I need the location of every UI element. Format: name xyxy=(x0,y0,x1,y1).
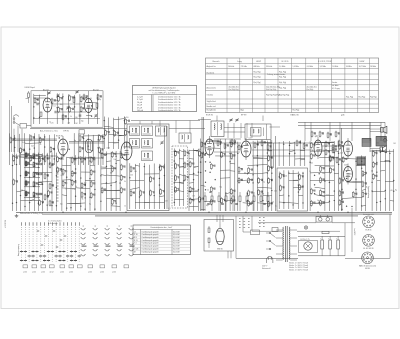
wire horizontal ifamp h6 xyxy=(220,169,230,171)
wire horizontal preamp h3 xyxy=(310,150,325,152)
wire vertical fbrails v5 xyxy=(393,149,395,211)
wire horizontal preamp h14 xyxy=(310,202,325,204)
svg-text:F(a) F(g) F(g): F(a) F(g) F(g) xyxy=(229,89,240,91)
wire horizontal midleft h1 xyxy=(76,157,95,159)
resistor-capacitor group preamp c11 xyxy=(310,201,312,205)
resistor-capacitor group output c3 xyxy=(352,192,354,196)
resistor-capacitor group preamp c2 xyxy=(310,154,312,158)
resistor-capacitor group gap6x50 c1 xyxy=(105,131,107,135)
capacitor C17 xyxy=(62,115,64,119)
junction det d14 xyxy=(247,193,248,194)
junction ifamp d4 xyxy=(205,153,206,154)
svg-text:UKW-Empfangsteil-Spulen: UKW-Empfangsteil-Spulen xyxy=(152,87,176,90)
svg-text:a1 b2: a1 b2 xyxy=(69,272,73,274)
wire mains top xyxy=(258,222,316,224)
wire psu drop left xyxy=(251,216,253,231)
junction switchbank d9 xyxy=(29,177,30,178)
junction fmbox d0 xyxy=(62,96,63,97)
wire horizontal det h12 xyxy=(257,203,271,204)
svg-text:3,10 DM: 3,10 DM xyxy=(173,251,180,253)
wire vertical tone v5 xyxy=(302,172,304,209)
wire horizontal centre h4 xyxy=(101,167,116,170)
wire main row rail a xyxy=(214,138,241,140)
svg-text:0,1: 0,1 xyxy=(275,206,277,208)
svg-text:a1 b2: a1 b2 xyxy=(41,272,45,274)
wire horizontal tunerlow h7 xyxy=(144,202,164,204)
coil L1 bank xyxy=(25,153,27,157)
wire horizontal preamp h8 xyxy=(310,171,329,174)
junction centre d7 xyxy=(111,172,112,173)
wire vertical amrow v15 xyxy=(83,134,85,165)
svg-text:0,05: 0,05 xyxy=(198,202,201,204)
svg-text:2k: 2k xyxy=(207,189,209,191)
junction tunerlow d4 xyxy=(164,175,165,176)
resistor-capacitor group ifgap c1 xyxy=(189,162,191,166)
wire horizontal ifamp h2 xyxy=(206,147,221,149)
capacitor C5 xyxy=(54,111,56,114)
junction gap6x50 d0 xyxy=(104,120,105,121)
resistor-capacitor group det c3 xyxy=(248,168,250,172)
junction preamp d5 xyxy=(338,164,339,165)
wire vertical tone v4 xyxy=(297,172,299,209)
wire vertical amrow v7 xyxy=(44,134,46,165)
wire horizontal tunerlow h1 xyxy=(159,166,164,167)
junction ifcan d2 xyxy=(183,163,184,164)
wire horizontal ifamp h7 xyxy=(220,177,230,179)
wire horizontal output h8 xyxy=(342,197,362,198)
wire vertical centre v4 xyxy=(119,151,121,211)
capacitor Ct 328 xyxy=(327,133,329,137)
wire vertical tunerlow v2 xyxy=(139,163,141,209)
wire horizontal ifamp h9 xyxy=(225,193,230,194)
wire horizontal preamp h4 xyxy=(319,156,338,159)
wire horizontal switchbank h1 xyxy=(25,163,30,165)
wire horizontal tone h1 xyxy=(289,179,299,181)
resistor-capacitor group amrow c0 xyxy=(10,138,12,142)
panel divider mid xyxy=(275,136,277,211)
wire horizontal det h5 xyxy=(253,157,263,159)
resistor-capacitor group tone c1 xyxy=(299,175,301,179)
pilot lamp xyxy=(304,226,307,229)
wire vertical amrow v6 xyxy=(38,134,40,165)
tuning cap C20 xyxy=(161,141,164,143)
junction preamp d11 xyxy=(314,193,315,194)
wire vertical ifcan v1 xyxy=(178,149,180,206)
wire vertical switchbank v5 xyxy=(33,153,35,211)
junction tone d4 xyxy=(302,173,303,174)
svg-text:F(a), F(g): F(a), F(g) xyxy=(346,97,354,99)
wire horizontal ifgap h5 xyxy=(189,173,198,176)
junction toneup d3 xyxy=(289,153,290,154)
junction ifamp d11 xyxy=(205,170,206,171)
svg-text:F(a) F(g): F(a) F(g) xyxy=(359,97,366,99)
svg-text:Ortsliste: Ortsliste xyxy=(207,93,214,96)
wire horizontal midleft h12 xyxy=(67,202,86,205)
wire horizontal fbrails h8 xyxy=(390,200,394,203)
wire horizontal centre h11 xyxy=(111,205,120,208)
junction fbrails d6 xyxy=(376,172,377,173)
wire horizontal output h1 xyxy=(356,158,366,160)
wire top bus right 2 xyxy=(298,124,381,126)
wire horizontal fbrails h6 xyxy=(385,180,393,182)
resistor-capacitor group preamp c6 xyxy=(320,178,322,182)
junction centre d4 xyxy=(111,165,112,166)
wire horizontal centre h8 xyxy=(106,190,120,192)
wire horizontal tunerlow h0 xyxy=(135,165,139,166)
junction preamp d14 xyxy=(329,201,330,202)
junction det d3 xyxy=(237,153,238,154)
junction fbrails d9 xyxy=(372,191,373,192)
wire horizontal fmbox h2 xyxy=(86,108,97,110)
svg-text:220 V~: 220 V~ xyxy=(262,266,268,268)
junction amrow d3 xyxy=(83,138,84,139)
chassis bus line 2 xyxy=(42,213,392,215)
junction det d15 xyxy=(262,193,263,194)
wire cap leads xyxy=(321,236,323,240)
svg-text:70p: 70p xyxy=(219,186,222,188)
junction det d11 xyxy=(237,180,238,181)
svg-text:4,7 µH: 4,7 µH xyxy=(137,99,143,101)
junction ifamp d14 xyxy=(215,179,216,180)
switch wafer column 2 xyxy=(93,229,97,231)
svg-text:25: 25 xyxy=(83,108,85,110)
resistor R1 antenna xyxy=(28,93,30,97)
svg-text:Drehbereichsfaktor 1:21 / 3k: Drehbereichsfaktor 1:21 / 3k xyxy=(158,109,181,112)
wire vertical tunerlow v7 xyxy=(163,164,165,209)
resistor-capacitor group fmbox c6 xyxy=(80,107,82,111)
junction fmbox d12 xyxy=(91,116,92,117)
wire vertical midleft v6 xyxy=(89,156,91,211)
trimmer C2 xyxy=(57,94,60,96)
alignment table column lines xyxy=(226,58,228,113)
svg-text:50k: 50k xyxy=(285,176,288,178)
svg-text:F(a), F(g): F(a), F(g) xyxy=(279,71,287,73)
wire horizontal ifamp h3 xyxy=(215,155,235,157)
junction tone d9 xyxy=(293,204,294,205)
wire vertical switchbank v8 xyxy=(46,153,48,211)
svg-text:0,1: 0,1 xyxy=(54,106,56,108)
svg-text:F(a), F(g): F(a), F(g) xyxy=(254,71,262,73)
wire horizontal midleft h5 xyxy=(71,172,76,174)
junction fbrails d2 xyxy=(376,162,377,163)
junction preamp d0 xyxy=(314,143,315,144)
wire vertical switchbank v3 xyxy=(24,153,26,211)
wire horizontal preamp h15 xyxy=(315,202,330,205)
junction midleft d12 xyxy=(75,196,76,197)
junction centre d13 xyxy=(116,203,117,204)
junction tunerlow d2 xyxy=(129,177,130,178)
wire horizontal tunerlow h5 xyxy=(159,195,164,198)
junction amrow d20 xyxy=(63,155,64,156)
wire vertical switchbank v2 xyxy=(20,152,22,211)
resistor-capacitor group det c5 xyxy=(238,178,240,182)
wire horizontal tone h6 xyxy=(279,202,298,203)
svg-text:LKUP: LKUP xyxy=(256,61,262,63)
resistor-capacitor group det c4 xyxy=(268,166,270,170)
resistor-capacitor group switchbank c4 xyxy=(57,168,59,172)
resistor-capacitor group fmbox c2 xyxy=(69,96,71,100)
wire horizontal ifcan h8 xyxy=(174,190,183,191)
junction det d6 xyxy=(257,165,258,166)
junction fmbox d5 xyxy=(57,107,58,108)
filter capacitor C52 xyxy=(337,240,340,249)
left bank extra parts xyxy=(44,157,46,161)
junction tunerlow d7 xyxy=(154,195,155,196)
resistor-capacitor group ifamp c7 xyxy=(230,189,232,193)
wire horizontal midleft h9 xyxy=(76,188,90,189)
junction output d5 xyxy=(346,178,347,179)
wire vertical switchbank v1 xyxy=(16,154,18,211)
junction switchbank d17 xyxy=(12,203,13,204)
wire horizontal preamp h2 xyxy=(319,150,338,152)
svg-text:UKW-Dipol: UKW-Dipol xyxy=(25,87,36,89)
junction fmbox d1 xyxy=(74,97,75,98)
svg-text:K U R Z, TROP: K U R Z, TROP xyxy=(318,61,332,63)
junction centre d3 xyxy=(106,166,107,167)
junction fmbox d11 xyxy=(68,118,69,119)
junction fmbox d4 xyxy=(33,106,34,107)
wire vertical gap6x50 v1 xyxy=(108,117,110,149)
junction amrow d16 xyxy=(38,158,39,159)
svg-text:50k: 50k xyxy=(244,172,247,174)
IF transformer T4 frame xyxy=(245,124,271,140)
resistor-capacitor group midleft c2 xyxy=(90,158,92,162)
wire psu drop right outer xyxy=(389,214,391,258)
svg-text:Ersatzteilpreise der „Lord“: Ersatzteilpreise der „Lord“ xyxy=(151,226,173,229)
svg-text:530 kHz: 530 kHz xyxy=(266,66,272,68)
junction tone d5 xyxy=(298,184,299,185)
wire horizontal tunerlow h4 xyxy=(130,188,140,190)
wire vertical ifamp v6 xyxy=(229,140,231,211)
wire horizontal fbrails h1 xyxy=(380,150,393,153)
wire horizontal ifgap h6 xyxy=(189,182,194,185)
dashed IF can xyxy=(172,146,188,208)
svg-text:0,05: 0,05 xyxy=(326,194,329,196)
wire horizontal switchbank h7 xyxy=(30,199,35,200)
wire horizontal toneup h1 xyxy=(300,150,305,152)
wire vertical centre v3 xyxy=(115,151,117,211)
wire main row double a xyxy=(12,139,57,141)
junction switchbank d3 xyxy=(51,155,52,156)
coil pack box 2 xyxy=(142,126,153,136)
junction midleft d14 xyxy=(89,197,90,198)
svg-text:Netzanschl.: Netzanschl. xyxy=(262,267,271,270)
wire horizontal midleft h4 xyxy=(81,171,90,173)
wire main row double b xyxy=(69,141,104,143)
svg-text:0,05: 0,05 xyxy=(22,142,25,144)
resistor R8 xyxy=(96,103,98,107)
wire horizontal tone h2 xyxy=(293,180,298,182)
wire main row clusters mid xyxy=(217,141,219,145)
wire horizontal preamp h11 xyxy=(315,187,325,188)
junction centre d11 xyxy=(120,183,121,184)
junction preamp d9 xyxy=(324,181,325,182)
wire horizontal centre h0 xyxy=(101,153,120,155)
junction preamp d15 xyxy=(334,200,335,201)
junction ifamp d8 xyxy=(210,162,211,163)
wire vertical switchbank v4 xyxy=(29,153,31,211)
junction ifamp d6 xyxy=(200,162,201,163)
wire vertical det v4 xyxy=(256,140,258,211)
svg-text:0,25: 0,25 xyxy=(51,123,54,125)
wire vertical gap6x50 v0 xyxy=(103,117,105,149)
wire horizontal midleft h6 xyxy=(85,179,95,181)
svg-text:F(a) F(g) F(g): F(a) F(g) F(g) xyxy=(266,89,277,91)
junction preamp d12 xyxy=(334,191,335,192)
wire horizontal toneup h0 xyxy=(290,142,295,145)
wire horizontal fmbox h0 xyxy=(34,94,46,96)
wire horizontal tone h3 xyxy=(293,186,303,189)
wire horizontal centre h3 xyxy=(101,166,107,168)
wire horizontal det h11 xyxy=(263,195,272,197)
junction fmbox d10 xyxy=(39,117,40,118)
switch wafer column 1 xyxy=(81,229,85,231)
svg-text:9,5 MHz: 9,5 MHz xyxy=(320,66,326,68)
wire horizontal preamp h12 xyxy=(319,194,334,196)
junction amrow d9 xyxy=(34,148,35,149)
wire horizontal ifcan h3 xyxy=(179,166,183,168)
trimmer C9 xyxy=(95,114,98,116)
wire horizontal preamp h13 xyxy=(315,195,325,197)
svg-text:50k: 50k xyxy=(310,163,313,165)
magic eye resistor Rb xyxy=(208,238,210,242)
wire vertical ifgap v0 xyxy=(188,150,190,211)
resistor-capacitor group preamp c13 xyxy=(339,201,341,205)
junction tunerlow d5 xyxy=(159,185,160,186)
junction det d9 xyxy=(267,172,268,173)
tuner box divider xyxy=(164,126,166,209)
wire horizontal ifcan h2 xyxy=(179,158,183,160)
junction midleft d4 xyxy=(61,171,62,172)
resistor-capacitor group gap6x50 c0 xyxy=(125,119,127,123)
wire main row rail c xyxy=(252,155,310,157)
wire horizontal fmbox h1 xyxy=(86,102,97,104)
wire AM row rail 2 xyxy=(69,142,104,144)
svg-text:30p: 30p xyxy=(81,121,84,123)
capacitor Ct 336 xyxy=(335,132,337,136)
wire vertical fmbox v1 xyxy=(39,95,41,124)
resistor-capacitor group amrow c4 xyxy=(99,136,101,140)
resistor-capacitor group ifamp c3 xyxy=(221,153,223,157)
junction ifamp d10 xyxy=(200,172,201,173)
junction switchbank d25 xyxy=(56,205,57,206)
wire horizontal ifamp h5 xyxy=(230,170,235,172)
junction ifgap d3 xyxy=(193,179,194,180)
resistor-capacitor group centre c0 xyxy=(101,154,103,158)
wire horizontal ifcan h1 xyxy=(174,151,179,153)
wire horizontal amrow h4 xyxy=(19,156,34,159)
resistor-capacitor group preamp c1 xyxy=(339,145,341,149)
svg-text:EM 80: EM 80 xyxy=(217,249,222,251)
svg-text:F(a), F(g): F(a), F(g) xyxy=(279,82,287,84)
junction amrow d5 xyxy=(98,139,99,140)
svg-text:0,25: 0,25 xyxy=(61,175,64,177)
svg-text:1k: 1k xyxy=(25,153,27,155)
speaker transformer xyxy=(376,136,387,138)
trimmer C13 xyxy=(76,91,79,93)
svg-text:10 µH: 10 µH xyxy=(137,102,143,104)
resistor Rd10 xyxy=(267,196,269,202)
resistor-capacitor group det c10 xyxy=(258,190,260,194)
junction fbrails d8 xyxy=(393,180,394,181)
wire main row rail d xyxy=(214,151,240,153)
resistor-capacitor group midleft c10 xyxy=(81,193,83,197)
junction ifcan d5 xyxy=(174,202,175,203)
svg-text:2k: 2k xyxy=(40,144,42,146)
junction ifcan d0 xyxy=(174,151,175,152)
coil pack box 4 xyxy=(142,139,153,149)
wire det-tone link verticals xyxy=(270,140,272,168)
svg-text:W 2435 F: W 2435 F xyxy=(4,220,6,229)
junction ifamp d1 xyxy=(220,144,221,145)
tuning indicator EM80 pins xyxy=(216,215,218,222)
wire horizontal fbrails h3 xyxy=(380,160,389,162)
resistor-capacitor group switchbank c6 xyxy=(48,191,50,195)
svg-text:1k: 1k xyxy=(70,116,72,118)
junction preamp d3 xyxy=(338,153,339,154)
svg-text:Drehbereichsfaktor 1:21 / 3k: Drehbereichsfaktor 1:21 / 3k xyxy=(158,101,181,104)
wire horizontal gap6x50 h1 xyxy=(104,126,113,127)
svg-text:ECH 81: ECH 81 xyxy=(366,230,372,232)
alignment table outer frame xyxy=(206,58,379,113)
wire vertical preamp v3 xyxy=(324,142,326,211)
svg-text:30p: 30p xyxy=(206,205,209,207)
tube V7 EF86 xyxy=(314,140,322,156)
junction fbrails d5 xyxy=(372,170,373,171)
wire horizontal tunerlow h3 xyxy=(130,179,145,181)
mains switch contacts xyxy=(269,232,271,234)
wire vertical centre v1 xyxy=(105,151,107,211)
wire horizontal det h8 xyxy=(238,173,258,175)
tube socket diagram 2 xyxy=(363,235,375,247)
svg-text:Oszillatorspule geprüft: Oszillatorspule geprüft xyxy=(142,250,159,253)
trimmer C12 xyxy=(48,92,51,94)
wire B+ rail bottom xyxy=(298,255,345,257)
wire horizontal ifamp h8 xyxy=(201,185,206,186)
junction centre d6 xyxy=(100,175,101,176)
resistor-capacitor group preamp c3 xyxy=(330,157,332,161)
parts table dividers xyxy=(140,229,142,254)
wire horizontal output h4 xyxy=(362,173,366,176)
svg-text:30p: 30p xyxy=(262,181,265,183)
svg-text:30p: 30p xyxy=(60,204,63,206)
tube V9 EL84 lower xyxy=(344,167,353,182)
junction switchbank d0 xyxy=(34,156,35,157)
junction switchbank d1 xyxy=(42,158,43,159)
wire T4 links xyxy=(263,128,265,137)
svg-text:160 kHz: 160 kHz xyxy=(228,66,234,68)
resistor-capacitor group tone c2 xyxy=(280,186,282,190)
transformer secondary winding xyxy=(288,227,291,259)
svg-text:10,7 MHz: 10,7 MHz xyxy=(359,66,366,68)
resistor Rd6 xyxy=(239,196,241,202)
output coupling parts xyxy=(325,142,327,146)
junction centre d10 xyxy=(116,181,117,182)
wire horizontal det h6 xyxy=(247,164,267,167)
speaker LS2 xyxy=(380,147,383,152)
junction ifcan d4 xyxy=(183,180,184,181)
wire vertical toneup v3 xyxy=(294,142,296,166)
input matching box xyxy=(20,124,27,129)
tube V5 EF89 IF amp xyxy=(205,139,214,155)
resistor-capacitor group centre c4 xyxy=(120,165,122,169)
wire vertical ifgap v2 xyxy=(197,149,199,211)
resistor-capacitor group midleft c9 xyxy=(90,182,92,186)
ferrite rod box xyxy=(79,130,85,134)
junction output d7 xyxy=(341,189,342,190)
IF transformer T4 inner xyxy=(251,128,262,137)
antenna input terminals xyxy=(13,118,15,120)
